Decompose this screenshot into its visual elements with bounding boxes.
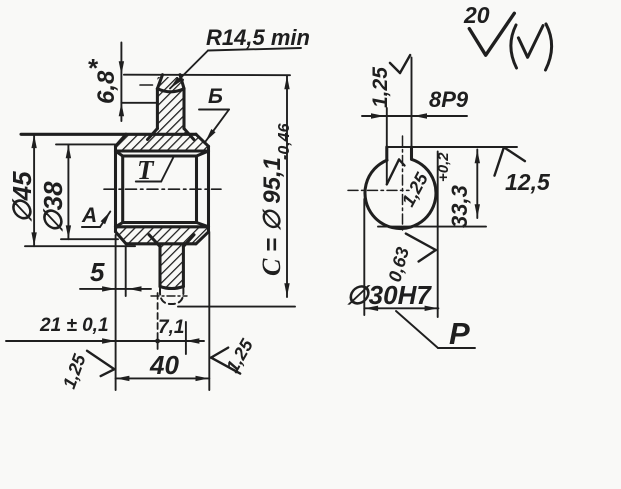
- roughness 1,25 keyway bottom: [387, 160, 433, 210]
- bore right extension line: [437, 152, 439, 318]
- hatch lower tooth section: [149, 235, 194, 287]
- hatch upper tooth section: [148, 77, 194, 140]
- lower rim outline: [116, 227, 209, 244]
- svg-text:20: 20: [463, 2, 490, 28]
- dimension 21+-0,1: [6, 315, 204, 344]
- svg-text:12,5: 12,5: [505, 169, 551, 195]
- svg-text:∅38: ∅38: [38, 181, 68, 233]
- upper rim outline: [21, 134, 209, 151]
- svg-text:-0,46: -0,46: [276, 123, 293, 160]
- axis centerline: [104, 188, 221, 190]
- svg-text:A: A: [81, 204, 97, 227]
- roughness 12,5: [495, 147, 551, 195]
- keyway top extension line: [387, 146, 517, 148]
- bore circle: [365, 159, 436, 228]
- bore left extension line: [363, 199, 365, 315]
- label P with leader: [396, 311, 475, 351]
- label A with leader: [81, 204, 110, 227]
- svg-text:Б: Б: [208, 85, 223, 108]
- roughness 1,25 keyway side: [369, 55, 410, 108]
- dimension C = d95,1: [178, 76, 295, 307]
- hatch upper rim section: [116, 134, 209, 151]
- right face extension line: [208, 232, 210, 390]
- svg-text:7,1: 7,1: [158, 317, 184, 338]
- dimension 5: [80, 247, 151, 297]
- lower tooth hidden outline (dashed): [160, 289, 183, 305]
- svg-text:= ∅ 95,1: = ∅ 95,1: [259, 157, 286, 252]
- lower tooth arc centerline: [151, 295, 187, 297]
- dimension d45: [7, 134, 135, 246]
- dimension d30H7: [346, 280, 438, 311]
- svg-text:∅30Н7: ∅30Н7: [346, 280, 432, 310]
- left face extension line: [115, 235, 117, 390]
- dimension 6,8: [87, 43, 157, 122]
- upper tooth outline: [140, 75, 194, 140]
- dimension 40: [116, 350, 210, 381]
- svg-text:T: T: [137, 155, 155, 185]
- circle horizontal centerline: [348, 189, 409, 191]
- svg-text:C: C: [257, 258, 286, 276]
- circle vertical centerline: [402, 136, 404, 230]
- dimension R14,5 min: [170, 25, 310, 89]
- general roughness note 20: [463, 2, 552, 70]
- dimension 7,1: [158, 293, 186, 354]
- label B (view arrow): [199, 85, 229, 142]
- top extension line (tooth tip): [124, 74, 290, 77]
- dimension 8P9: [362, 87, 469, 119]
- keyway right extension / roughness leader: [411, 58, 413, 148]
- svg-text:Р: Р: [449, 316, 470, 351]
- svg-text:∅45: ∅45: [7, 171, 37, 223]
- web outline: [116, 151, 209, 227]
- svg-text:R14,5 min: R14,5 min: [206, 25, 310, 50]
- lower tooth outline: [149, 235, 194, 289]
- label T with leader: [136, 155, 174, 185]
- roughness 1,25 right: [211, 335, 257, 376]
- svg-text:1,25: 1,25: [369, 67, 392, 108]
- roughness 1,25 left: [59, 351, 114, 392]
- svg-text:5: 5: [90, 257, 105, 287]
- roughness 0,63: [385, 234, 436, 284]
- svg-text:21 ± 0,1: 21 ± 0,1: [39, 315, 109, 336]
- keyway left extension / roughness leader: [386, 108, 388, 184]
- hub outer left face: [114, 146, 117, 232]
- svg-text:40: 40: [149, 350, 179, 380]
- hub outer right face: [207, 146, 210, 232]
- keyway slot: [387, 147, 412, 160]
- dimension 33,3+0,2: [378, 150, 486, 229]
- dimension d38: [38, 144, 118, 239]
- svg-text:33,3: 33,3: [447, 185, 472, 228]
- svg-text:8Р9: 8Р9: [429, 87, 469, 112]
- hatch lower rim section: [116, 227, 209, 244]
